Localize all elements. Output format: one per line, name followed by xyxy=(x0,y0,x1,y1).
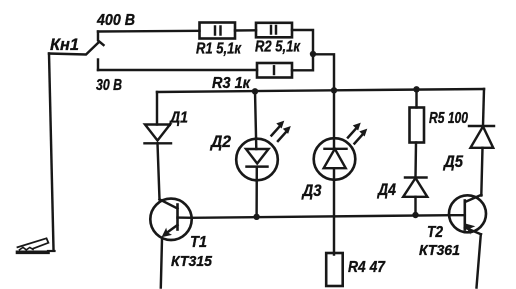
alligator clip probe xyxy=(18,238,55,252)
resistor R3 xyxy=(257,63,292,78)
wire R1 to R2 xyxy=(235,29,256,32)
junction rail/Д3 xyxy=(331,87,337,93)
svg-text:Д3: Д3 xyxy=(301,182,322,200)
wire switch pole to clip xyxy=(49,54,54,250)
transistor T1 xyxy=(150,199,192,288)
junction rail/R5 xyxy=(413,86,419,92)
switch Кн1 xyxy=(49,32,104,71)
resistor R2 xyxy=(256,23,292,38)
diode Д5 xyxy=(469,126,494,196)
svg-text:400 В: 400 В xyxy=(96,12,135,29)
svg-text:R5 100: R5 100 xyxy=(429,110,468,127)
wire rail corner to Д5 xyxy=(483,89,484,126)
junction Д4/base rail xyxy=(412,212,418,218)
wire R2 to node A xyxy=(292,30,313,54)
svg-text:Д1: Д1 xyxy=(168,110,188,127)
svg-text:Кн1: Кн1 xyxy=(50,35,79,54)
svg-text:Д5: Д5 xyxy=(442,153,464,171)
svg-text:30 В: 30 В xyxy=(96,77,122,94)
svg-text:R4 47: R4 47 xyxy=(348,259,386,276)
transistor T2 xyxy=(449,195,486,288)
resistor R4 xyxy=(326,253,343,286)
svg-text:R3 1к: R3 1к xyxy=(212,75,251,92)
node A junction xyxy=(310,51,316,57)
wire 30V bus xyxy=(98,69,257,71)
wire 400V bus xyxy=(98,30,200,33)
LED Д3 xyxy=(314,90,356,254)
svg-text:Д2: Д2 xyxy=(209,133,231,151)
svg-text:КТ315: КТ315 xyxy=(171,253,213,270)
junction T1 collector / Д2 xyxy=(253,214,259,220)
diode Д4 xyxy=(403,178,427,216)
wire top rail xyxy=(157,89,484,92)
svg-text:R1 5,1к: R1 5,1к xyxy=(196,41,242,58)
junction rail/Д2 xyxy=(252,88,258,94)
LED Д2 xyxy=(236,91,278,217)
svg-text:Т2: Т2 xyxy=(427,224,443,241)
svg-text:R2 5,1к: R2 5,1к xyxy=(255,39,301,56)
wire base rail xyxy=(192,215,450,218)
LED Д3 arrows xyxy=(348,123,367,144)
diode Д1 xyxy=(145,92,172,199)
svg-text:Д4: Д4 xyxy=(376,181,396,199)
wire R3 to node A xyxy=(292,54,313,70)
wire node A to rail drop xyxy=(313,54,334,90)
svg-text:КТ361: КТ361 xyxy=(419,242,460,259)
svg-text:Т1: Т1 xyxy=(190,234,207,251)
resistor R1 xyxy=(200,23,236,39)
LED Д2 arrows xyxy=(272,121,291,141)
resistor R5 xyxy=(410,89,425,177)
